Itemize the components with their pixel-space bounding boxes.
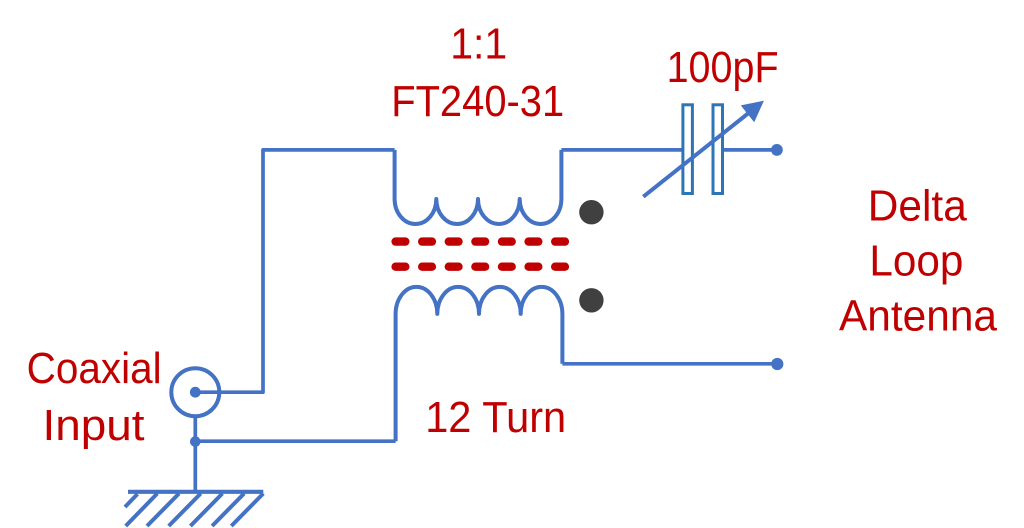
- wire W3: capacitor right plate to antenna terminal 1: [724, 148, 777, 152]
- svg-text:FT240-31: FT240-31: [391, 77, 564, 126]
- wire W6: coax shield down to ground: [193, 416, 197, 492]
- phase dot (top): [579, 200, 603, 224]
- svg-text:Antenna: Antenna: [839, 292, 997, 341]
- svg-text:Input: Input: [43, 401, 145, 450]
- capacitor C1 plate 2: [713, 105, 723, 194]
- svg-text:Coaxial: Coaxial: [27, 344, 162, 393]
- node: antenna terminal 1 endpoint dot: [771, 144, 783, 156]
- node: antenna terminal 2 endpoint dot: [771, 358, 783, 370]
- wire W1: coax center pin to primary winding left end: [195, 150, 394, 392]
- svg-text:12 Turn: 12 Turn: [425, 393, 566, 442]
- ground symbol hatch lines: [125, 494, 263, 527]
- ground symbol bar: [128, 490, 263, 494]
- ferrite core dashes row 1: [396, 237, 565, 245]
- transformer winding L1 (top, primary): [395, 150, 562, 224]
- transformer winding L2 (bottom, secondary): [396, 287, 563, 441]
- coax connector J1 center pin dot: [190, 387, 201, 398]
- capacitor C1 variable arrow shaft: [643, 114, 748, 197]
- svg-text:1:1: 1:1: [450, 19, 507, 68]
- wire W2: primary right end to capacitor left plate: [561, 148, 681, 152]
- svg-text:100pF: 100pF: [667, 43, 779, 92]
- svg-text:Loop: Loop: [869, 237, 963, 286]
- node: junction dot at coax shield: [190, 436, 201, 447]
- phase dot (bottom): [579, 288, 603, 312]
- wire W4: secondary right end to antenna terminal 2: [562, 362, 777, 366]
- svg-text:Delta: Delta: [868, 182, 968, 231]
- wire W5: ground junction to secondary left end: [195, 439, 395, 443]
- ferrite core dashes row 2: [396, 263, 565, 271]
- coax connector J1 outer circle: [171, 368, 219, 416]
- capacitor C1 plate 1: [683, 105, 693, 194]
- capacitor C1 variable arrow head: [741, 101, 764, 123]
